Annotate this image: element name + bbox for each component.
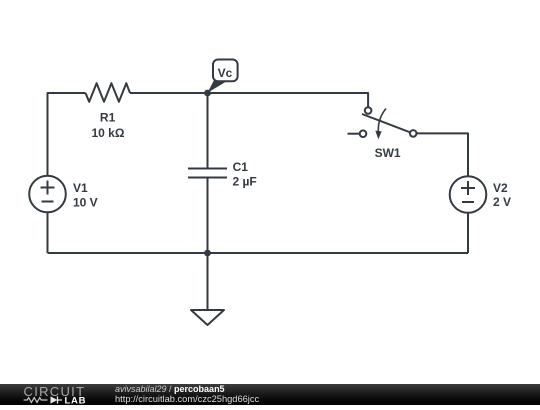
wire: capacitor bottom lead bbox=[207, 178, 209, 254]
svg-text:http://circuitlab.com/czc25hgd: http://circuitlab.com/czc25hgd66jcc bbox=[115, 394, 260, 404]
svg-text:LAB: LAB bbox=[65, 395, 87, 405]
logo diode bbox=[51, 396, 58, 403]
capacitor C1 bbox=[188, 169, 227, 178]
wire: bottom rail bbox=[48, 252, 469, 254]
wire: switch open-throw stub bbox=[348, 133, 360, 135]
switch SW1 terminals bbox=[365, 107, 372, 114]
wire: switch to right rail bbox=[417, 133, 469, 176]
wire: left rail top (V1 top to top-left corner to resistor) bbox=[48, 93, 86, 176]
node Vc flag tail bbox=[208, 80, 227, 93]
wire: V1 bottom lead bbox=[47, 212, 49, 253]
voltage source V1 bbox=[29, 176, 66, 213]
node Vc flag box bbox=[213, 60, 238, 82]
svg-text:avivsabilal29 / percobaan5: avivsabilal29 / percobaan5 bbox=[115, 384, 225, 394]
svg-text:2 V: 2 V bbox=[493, 195, 511, 209]
node Vc dot bbox=[204, 90, 211, 97]
ground bbox=[191, 310, 224, 325]
switch SW1 arrowhead bbox=[375, 131, 381, 140]
svg-text:10 kΩ: 10 kΩ bbox=[92, 126, 125, 140]
wire: capacitor top lead bbox=[207, 93, 209, 169]
svg-text:2 µF: 2 µF bbox=[233, 175, 257, 189]
wire: ground stem bbox=[207, 253, 209, 310]
svg-text:Vc: Vc bbox=[218, 66, 233, 80]
svg-text:R1: R1 bbox=[100, 111, 116, 125]
voltage source V2 bbox=[450, 176, 487, 213]
svg-text:V1: V1 bbox=[73, 181, 88, 195]
switch SW1 blade bbox=[362, 114, 413, 134]
switch SW1 actuation arrow bbox=[378, 109, 386, 133]
node: bottom rail junction bbox=[204, 250, 211, 257]
svg-text:C1: C1 bbox=[233, 160, 249, 174]
footer bar bbox=[0, 384, 540, 405]
svg-text:10 V: 10 V bbox=[73, 195, 98, 209]
wire: top rail from R1 through node to switch corner bbox=[130, 93, 368, 107]
resistor R1 bbox=[86, 83, 131, 102]
svg-text:V2: V2 bbox=[493, 181, 508, 195]
svg-text:SW1: SW1 bbox=[375, 146, 401, 160]
wire: V2 bottom lead bbox=[467, 213, 469, 253]
logo resistor squiggle bbox=[24, 398, 48, 403]
